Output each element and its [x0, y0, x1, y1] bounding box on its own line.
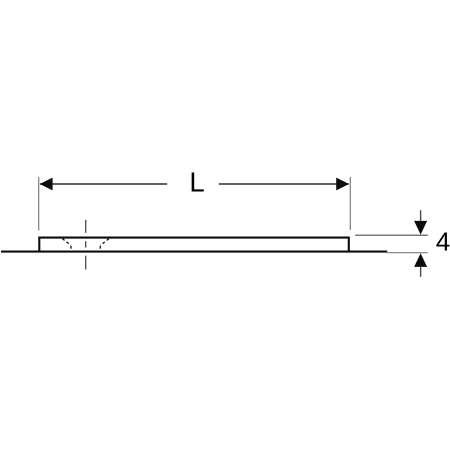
dimension L: left extension line: [38, 177, 40, 231]
dimension L: left arrowhead: [40, 178, 53, 191]
countersunk hole hidden line: left wall: [70, 246, 72, 251]
svg-text:L: L: [189, 166, 204, 197]
hole centerline, middle dash: [85, 241, 87, 247]
countersunk hole hidden line: right wall: [99, 246, 101, 251]
dimension L: line right segment: [219, 183, 349, 185]
dimension 4: lower leader line: [420, 266, 422, 276]
countersunk hole hidden line: left taper: [62, 239, 71, 246]
hole centerline (dash-dot), upper dash: [85, 220, 87, 233]
dimension L: right arrowhead: [336, 178, 349, 191]
hole centerline, lower dash: [85, 256, 87, 270]
dimension 4: down arrowhead: [414, 221, 427, 235]
dimension 4: up arrowhead: [414, 253, 427, 267]
dimension 4: top extension line: [355, 234, 428, 236]
dimension 4: upper leader line: [420, 210, 422, 221]
countersunk hole hidden line: right taper: [100, 239, 109, 246]
svg-text:4: 4: [436, 227, 450, 257]
dimension L: right extension line: [349, 177, 351, 230]
sealing membrane / base line: [1, 251, 387, 253]
panel outline (shower surface cross-section): [39, 238, 349, 252]
dimension L: line left segment: [40, 183, 167, 185]
dimension 4: bottom extension line: [387, 252, 428, 254]
